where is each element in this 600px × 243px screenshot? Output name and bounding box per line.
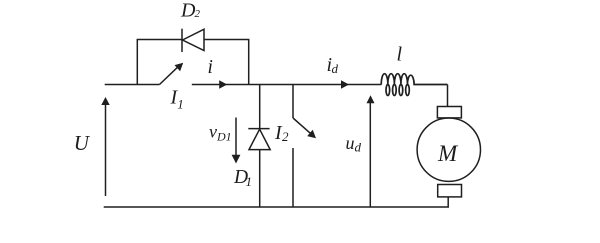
svg-text:U: U: [74, 131, 91, 155]
svg-text:l: l: [397, 44, 403, 66]
svg-text:v: v: [209, 122, 217, 142]
svg-text:i: i: [208, 57, 213, 78]
svg-text:1: 1: [246, 174, 253, 189]
svg-text:2: 2: [282, 129, 289, 144]
svg-text:1: 1: [177, 97, 184, 112]
svg-text:d: d: [332, 61, 339, 76]
svg-text:d: d: [355, 140, 362, 155]
svg-text:2: 2: [195, 8, 201, 20]
svg-text:M: M: [437, 141, 459, 166]
svg-text:u: u: [346, 133, 355, 153]
svg-text:D1: D1: [216, 130, 232, 144]
